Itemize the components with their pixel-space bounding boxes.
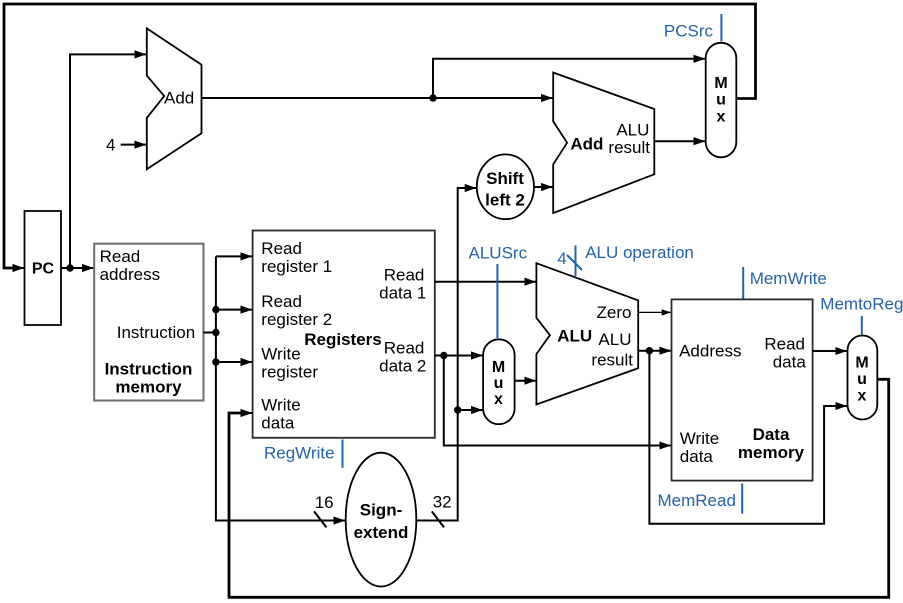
svg-text:32: 32 [433, 493, 452, 512]
shift left 2 unit [477, 154, 534, 219]
wire: shift left 2 output to branch adder [534, 186, 553, 188]
svg-text:Add: Add [164, 89, 194, 108]
node: junction right of PC [66, 264, 73, 271]
svg-text:Sign-: Sign- [360, 501, 403, 520]
wire: Add1 output (PC+4) to branch adder [202, 97, 553, 99]
svg-text:Read: Read [764, 335, 805, 354]
svg-text:ALU: ALU [557, 326, 592, 345]
svg-text:ALUSrc: ALUSrc [469, 244, 528, 263]
wire: Read data 1 to ALU [435, 281, 536, 283]
svg-text:Registers: Registers [304, 330, 381, 349]
svg-text:RegWrite: RegWrite [264, 444, 335, 463]
svg-text:Read: Read [100, 247, 141, 266]
adder Add2 (branch target) [553, 73, 654, 214]
node: bus dot at read register 2 [212, 306, 219, 313]
node: bus dot at write register [212, 358, 219, 365]
instruction memory [94, 244, 203, 401]
svg-text:Shift: Shift [486, 169, 524, 188]
wire: Instruction out to bus [204, 332, 216, 334]
slash: 16-bit bus [314, 511, 326, 527]
wire: Read data 2 to ALUSrc mux [435, 355, 483, 357]
wire: 4 into Add1 [121, 144, 146, 146]
svg-text:Data: Data [753, 425, 790, 444]
svg-text:register: register [261, 363, 318, 382]
slash: 4-bit control bus (blue) [567, 255, 582, 270]
svg-text:Instruction: Instruction [117, 323, 195, 342]
svg-text:M: M [492, 359, 505, 376]
data memory [672, 299, 813, 480]
ALU [536, 263, 638, 404]
wire: ALU result to Data memory Address [638, 350, 671, 352]
svg-text:Read: Read [261, 239, 302, 258]
svg-text:ALU operation: ALU operation [585, 243, 694, 262]
svg-text:Zero: Zero [597, 303, 632, 322]
slash: 32-bit bus [432, 511, 444, 527]
wire: PC up to Add1 input [70, 54, 146, 268]
svg-text:Read: Read [384, 339, 425, 358]
wire: MemtoReg mux output feedback to Registers Write data [229, 379, 889, 597]
svg-text:result: result [591, 350, 633, 369]
node: bus dot at instruction [212, 329, 219, 336]
svg-text:4: 4 [557, 249, 566, 268]
svg-text:Read: Read [261, 292, 302, 311]
svg-text:data: data [261, 414, 295, 433]
svg-text:data 2: data 2 [379, 357, 426, 376]
svg-text:u: u [716, 92, 726, 109]
svg-text:extend: extend [354, 523, 409, 542]
wire: ALU result down and around to MemtoReg mux input 1 [649, 351, 846, 524]
svg-text:MemRead: MemRead [658, 491, 736, 510]
svg-text:memory: memory [738, 443, 805, 462]
sign-extend unit [346, 453, 417, 587]
node: read data 2 junction [440, 352, 447, 359]
svg-text:Instruction: Instruction [105, 360, 193, 379]
svg-text:16: 16 [315, 493, 334, 512]
node: ALU result junction [646, 347, 653, 354]
wire: arrow into PC [4, 267, 24, 269]
svg-text:Address: Address [679, 342, 741, 361]
wire: ALUSrc mux output to ALU [515, 380, 536, 382]
svg-text:x: x [858, 388, 867, 405]
svg-text:address: address [100, 265, 160, 284]
mux MemtoReg [848, 336, 878, 420]
svg-text:ALU: ALU [616, 121, 649, 140]
registers block [253, 231, 435, 438]
mux PCSrc [706, 43, 737, 158]
register PC [25, 211, 62, 325]
mux ALUSrc [483, 339, 514, 424]
wire: to Read register 2 [216, 309, 252, 311]
svg-text:MemtoReg: MemtoReg [820, 295, 903, 314]
node: sign-extend branch junction [454, 406, 461, 413]
wire: Data memory Read data to MemtoReg mux input 0 [813, 350, 847, 352]
svg-text:M: M [855, 355, 868, 372]
svg-text:PC: PC [32, 261, 55, 278]
svg-text:Write: Write [680, 429, 719, 448]
svg-text:Add: Add [570, 134, 603, 153]
svg-text:data: data [773, 353, 807, 372]
wire: Zero output (thin) [638, 311, 671, 313]
svg-text:data 1: data 1 [379, 284, 426, 303]
wire: branch to ALUSrc mux input 1 [458, 409, 483, 411]
svg-text:register 1: register 1 [261, 257, 332, 276]
svg-text:4: 4 [106, 136, 115, 155]
svg-text:ALU: ALU [598, 330, 631, 349]
wire: instruction bus vertical with branch to Read register 1 [216, 256, 345, 520]
svg-text:Write: Write [261, 396, 300, 415]
wire: to Read register 1 [216, 255, 252, 257]
wire: sign-extend output up to shift left 2 [416, 188, 476, 521]
svg-text:MemWrite: MemWrite [750, 269, 827, 288]
svg-text:Write: Write [261, 345, 300, 364]
svg-text:PCSrc: PCSrc [664, 22, 714, 41]
wire: PC+4 branch up to PCSrc mux input 0 [433, 59, 705, 98]
svg-text:x: x [717, 109, 726, 126]
wire: to Write register [216, 361, 252, 363]
svg-text:M: M [714, 75, 727, 92]
svg-text:u: u [494, 375, 504, 392]
wire: branch adder output to PCSrc mux input 1 [654, 140, 705, 142]
wire: read data 2 down to Data memory Write data [444, 356, 671, 446]
svg-text:left 2: left 2 [485, 191, 525, 210]
svg-text:u: u [857, 371, 867, 388]
svg-text:memory: memory [115, 378, 182, 397]
wire: PCSrc mux output feedback to PC (right, top, left) [4, 4, 756, 268]
svg-text:result: result [608, 138, 650, 157]
wire: arrow into Write data [235, 412, 252, 414]
svg-text:Read: Read [384, 266, 425, 285]
svg-text:register 2: register 2 [261, 310, 332, 329]
svg-text:data: data [680, 447, 714, 466]
svg-text:x: x [494, 391, 503, 408]
wire: PC to Instruction memory Read address [61, 267, 94, 269]
adder Add1 (PC+4) [147, 28, 202, 169]
node: PC+4 junction [429, 94, 436, 101]
